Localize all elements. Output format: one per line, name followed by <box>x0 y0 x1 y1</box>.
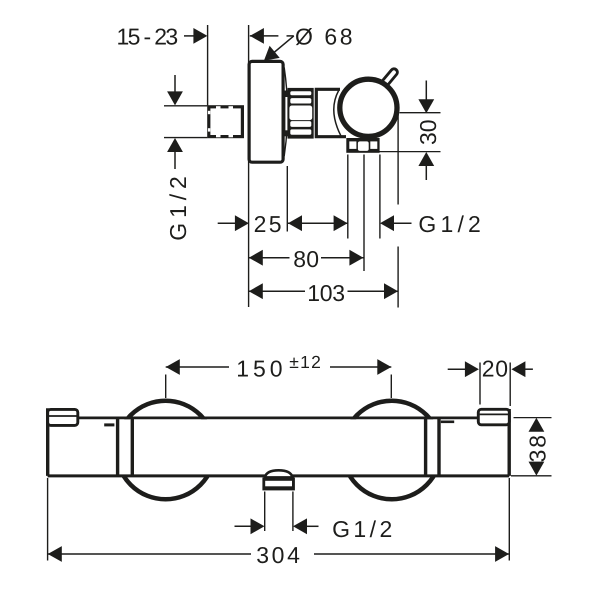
dimension 38 <box>514 417 552 419</box>
extension line outlet right <box>379 155 381 239</box>
extension line knob right edge (lower part) <box>397 247 399 308</box>
bar bottom edge <box>48 474 510 477</box>
extension line outlet centre <box>363 155 365 272</box>
svg-text:G1/2: G1/2 <box>332 516 392 542</box>
right S-union box <box>478 409 509 425</box>
left S-union box <box>48 409 78 425</box>
dimension 20 <box>479 363 481 405</box>
extension line at x=248.5 (wall / escutcheon face) <box>248 25 250 307</box>
dimension 304 <box>47 478 49 561</box>
valve body <box>316 89 346 136</box>
left knob circle <box>116 401 215 500</box>
wall fitting (inlet G1/2 thread) <box>209 107 243 137</box>
svg-text:20: 20 <box>482 355 508 381</box>
dim 25 left arrow <box>218 222 236 224</box>
knob (thermostat handle, circle) <box>340 79 397 136</box>
dimension 30 arrows <box>425 81 427 102</box>
right bracket lines <box>424 418 427 476</box>
svg-text:G1/2: G1/2 <box>165 176 191 241</box>
leader for diameter 68 <box>287 35 294 37</box>
small tick left <box>104 423 114 426</box>
outlet nut below body <box>346 138 379 153</box>
right knob circle <box>343 401 442 500</box>
extension line knob right edge (upper part) <box>397 114 399 205</box>
G1/2 right arrow (top view) <box>380 215 394 231</box>
union nut (ribbed) <box>288 88 314 139</box>
extension line 150 right <box>390 375 392 399</box>
escutcheon right bulge line <box>284 68 287 157</box>
dimension 30 extension lines <box>400 112 441 114</box>
svg-text:15 - 23: 15 - 23 <box>117 24 179 50</box>
svg-text:304: 304 <box>256 542 300 568</box>
body rounded corner arc behind knob <box>334 91 341 136</box>
escutcheon (wall rosette) <box>249 61 283 162</box>
small tick right <box>441 420 454 423</box>
dimension 150 +-12 <box>166 366 229 368</box>
bar top edge <box>79 416 478 419</box>
outlet nut (bottom view) <box>262 478 295 491</box>
extension line outlet left <box>347 155 349 239</box>
extension line 150 left <box>165 375 167 399</box>
dimension 15-23 <box>184 35 198 37</box>
dimension G1/2 (bottom) <box>235 525 253 527</box>
double arrow between 287.8 and 347.7 <box>288 222 348 224</box>
svg-text:30: 30 <box>415 120 441 146</box>
outlet dome <box>265 470 293 477</box>
dimension 103 <box>249 290 305 292</box>
svg-text:150: 150 <box>236 355 282 381</box>
extension line escutcheon right face <box>286 166 288 232</box>
svg-text:Ø 68: Ø 68 <box>295 24 353 50</box>
left G1/2 arrows <box>174 75 176 93</box>
svg-text:103: 103 <box>307 280 345 306</box>
svg-text:80: 80 <box>293 246 319 272</box>
left bracket lines <box>116 418 119 476</box>
connector between escutcheon and union nut <box>284 91 291 137</box>
extension line at x=207.5 (fitting left face) <box>207 25 209 106</box>
bar right edge <box>508 409 511 476</box>
svg-text:G1/2: G1/2 <box>418 211 480 237</box>
bar left edge <box>46 408 49 476</box>
temperature lever stub <box>383 72 394 85</box>
outlet extension lines (bottom view) <box>264 492 266 532</box>
bar body (white cover) <box>48 419 510 474</box>
thread tick marks on fitting <box>216 106 221 108</box>
svg-text:±12: ±12 <box>289 352 321 372</box>
dimension 80 <box>249 257 290 259</box>
extension lines for left G1/2 <box>164 105 207 107</box>
svg-text:38: 38 <box>524 435 550 463</box>
